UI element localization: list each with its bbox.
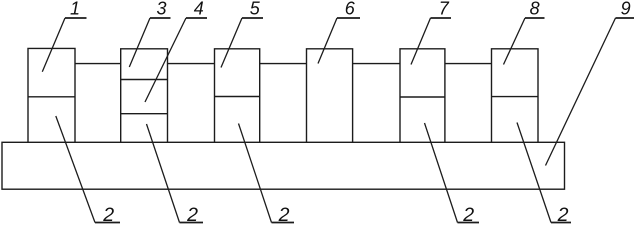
underline label 7 xyxy=(431,17,452,19)
leader line label 2a xyxy=(56,116,95,223)
underline label 8 xyxy=(525,17,545,19)
wire connector B3-B4 xyxy=(260,63,307,65)
svg-text:7: 7 xyxy=(439,0,450,19)
block B3 (parts 5/2) xyxy=(215,49,260,143)
leader line label 1 xyxy=(42,18,65,72)
block B1 (parts 1/2) xyxy=(28,48,75,142)
leader line label 5 xyxy=(221,18,242,68)
wire connector B1-B2 xyxy=(75,63,121,65)
leader line label 8 xyxy=(504,18,526,65)
svg-text:6: 6 xyxy=(345,0,356,19)
svg-text:8: 8 xyxy=(530,0,540,19)
underline label 9 xyxy=(616,17,634,19)
underline label 2a xyxy=(95,222,120,224)
leader line label 6 xyxy=(318,18,337,64)
leader line label 7 xyxy=(411,18,431,65)
underline label 2b xyxy=(180,222,204,224)
leader line label 2b xyxy=(147,124,180,223)
svg-text:4: 4 xyxy=(194,0,204,19)
svg-text:3: 3 xyxy=(156,0,166,19)
underline label 6 xyxy=(337,17,360,19)
wire connector B2-B3 xyxy=(168,63,215,65)
svg-text:2: 2 xyxy=(186,204,198,225)
leader line label 3 xyxy=(129,18,150,67)
svg-text:2: 2 xyxy=(102,204,114,225)
leader line label 2d xyxy=(425,123,458,223)
svg-text:5: 5 xyxy=(250,0,261,19)
block B4 (part 6) xyxy=(307,49,353,143)
leader line label 2e xyxy=(517,123,551,223)
svg-text:2: 2 xyxy=(278,204,290,225)
wire connector B5-B6 xyxy=(445,63,492,65)
block B6 (parts 8/2) xyxy=(492,49,539,143)
underline label 2d xyxy=(458,222,480,224)
block B5 (parts 7/2) xyxy=(400,49,445,143)
underline label 3 xyxy=(150,17,171,19)
leader line label 2c xyxy=(239,124,272,223)
base plate 9 xyxy=(2,142,565,189)
underline label 1 xyxy=(65,17,87,19)
underline label 2c xyxy=(272,222,295,224)
underline label 5 xyxy=(242,17,263,19)
leader line label 4 xyxy=(145,18,186,102)
svg-text:2: 2 xyxy=(462,204,474,225)
svg-text:9: 9 xyxy=(621,0,631,19)
leader line label 9 xyxy=(546,18,616,166)
svg-text:1: 1 xyxy=(70,0,80,19)
svg-text:2: 2 xyxy=(557,204,569,225)
wire connector B4-B5 xyxy=(353,63,400,65)
underline label 2e xyxy=(551,222,571,224)
underline label 4 xyxy=(186,17,207,19)
block B2 (parts 3/4/2) xyxy=(121,49,168,143)
